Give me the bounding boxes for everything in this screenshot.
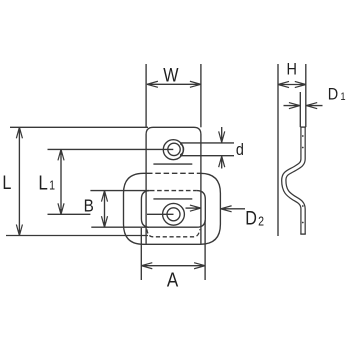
side view H extension + back face line [305,64,307,127]
W extension line right [200,64,202,127]
dimension B arrow [101,191,107,228]
bottom hole inner circle [167,208,180,221]
svg-text:D: D [245,207,257,229]
ring outer top fold dashed [147,172,200,174]
slot outline solid part [141,191,205,228]
top hole right arc [180,144,183,155]
label d [236,141,244,159]
svg-text:W: W [163,64,179,86]
bottom hole outer circle [163,203,185,225]
ring outer outline solid part [124,173,221,244]
svg-text:L: L [2,172,11,194]
slot top edge dashed [150,190,197,192]
D1 thickness extension (front face above strip) [299,92,301,127]
dimension W arrow [147,81,201,87]
D1 arrow left [284,103,300,109]
side view S-bend strip [284,127,306,234]
d arrow bottom [219,156,225,168]
label H [287,61,297,79]
svg-text:B: B [84,196,94,216]
top hole inner circle [168,143,180,155]
D1 arrow right [306,103,322,109]
label D2 [245,207,264,229]
B extension line bottom [91,226,149,228]
svg-text:L: L [38,171,47,194]
svg-text:1: 1 [49,179,55,193]
svg-text:D: D [328,86,338,104]
label W [163,64,179,86]
d arrow top [219,127,225,142]
label L1 [38,171,55,194]
svg-text:2: 2 [258,215,264,229]
hidden lower fold dashed smile [147,229,200,237]
A extension line right [204,220,206,280]
strip top end cap [300,126,306,128]
L extension line bottom [6,235,148,237]
D2 arrow outer [221,206,245,212]
label L [2,172,11,194]
crease line below top hole [153,163,192,165]
label A [167,268,179,291]
svg-text:A: A [167,268,179,291]
svg-text:H: H [287,61,297,79]
top hole outer circle [163,140,183,160]
L1 extension line bottom [48,213,91,215]
L extension line top [10,126,148,128]
side view H extension line left [277,64,279,236]
W extension line left [145,64,147,127]
label B [84,196,94,216]
plate outline (front view) [146,127,201,244]
label D1 [328,86,346,104]
A extension line left [140,228,142,280]
dimension L1 arrow [58,149,64,214]
dimension H arrow [278,81,306,87]
D2 arrow inner [186,205,201,211]
svg-text:d: d [236,141,244,159]
d extension line top [180,142,234,144]
hole marks on strip [302,135,304,137]
bottom hole centre line [147,213,174,215]
dimension L arrow [16,127,22,235]
B extension line top [90,190,149,192]
strip bottom end cap [300,233,306,235]
d extension line bottom [180,155,234,157]
svg-text:1: 1 [340,91,345,103]
crease line above bottom hole [153,198,192,200]
top hole centre line [48,148,174,150]
dimension A arrow [141,263,205,269]
